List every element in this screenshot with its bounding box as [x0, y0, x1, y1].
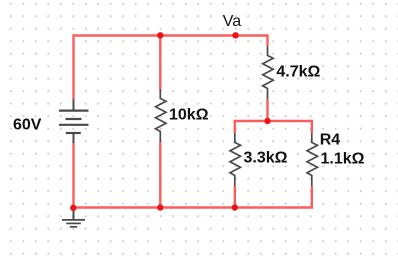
battery V1 60V	[59, 100, 89, 144]
wire top horizontal net Va	[74, 34, 268, 36]
junction dot bottom 3.3k	[232, 204, 238, 210]
svg-text:3.3kΩ: 3.3kΩ	[244, 150, 288, 167]
svg-text:R4: R4	[320, 131, 341, 148]
wire 4.7k branch top	[266, 34, 268, 46]
wire 3.3k branch bottom	[234, 186, 236, 208]
svg-text:10kΩ: 10kΩ	[169, 106, 209, 123]
resistor R 10k	[156, 89, 167, 142]
resistor R4 1.1k	[307, 133, 318, 186]
svg-text:Va: Va	[223, 13, 241, 30]
wire bottom horizontal	[74, 206, 314, 208]
junction dot bottom 10k	[157, 204, 163, 210]
wire 10k branch bottom	[159, 142, 161, 208]
wire battery top vertical	[72, 34, 74, 100]
junction dot top 10k	[157, 32, 163, 38]
junction dot Va	[232, 32, 238, 38]
resistor 4.7k	[263, 46, 274, 99]
svg-text:1.1kΩ: 1.1kΩ	[321, 150, 365, 167]
wire battery bottom vertical	[72, 143, 74, 208]
wire 4.7k branch bottom	[266, 99, 268, 121]
wire 3.3k branch top	[234, 120, 236, 133]
svg-text:60V: 60V	[13, 116, 42, 133]
ground	[62, 208, 85, 227]
wire 1.1k branch bottom	[311, 186, 313, 208]
junction dot middle	[264, 118, 270, 124]
svg-text:4.7kΩ: 4.7kΩ	[276, 64, 320, 81]
junction dot bottom battery	[70, 205, 76, 211]
wire middle horizontal	[235, 120, 312, 122]
resistor 3.3k	[230, 133, 241, 186]
wire 1.1k branch top	[311, 120, 313, 133]
wire 10k branch top	[159, 36, 161, 90]
